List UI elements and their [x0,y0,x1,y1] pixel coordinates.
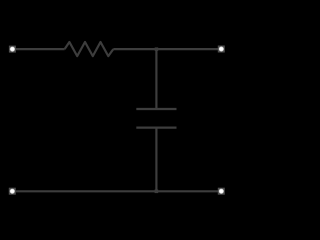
wire: input lead from left terminal to resistor [12,48,64,50]
terminal: bottom-left ground port [9,188,16,195]
terminal: bottom-right ground port [218,188,225,195]
wire: bottom ground rail [12,190,221,192]
terminal: top-right output port [218,46,225,53]
wire: output node to right terminal [156,48,221,50]
wire: resistor to output node [113,48,156,50]
wire: output node down to capacitor top plate [155,49,157,109]
node junction (bottom ground node) [155,190,159,194]
capacitor C1 bottom plate [136,126,176,128]
node junction (top, output node) [155,47,159,51]
capacitor C1 top plate [136,108,176,110]
terminal: top-left input port [9,46,16,53]
resistor R1 [65,42,114,56]
wire: capacitor bottom plate down to ground rail [155,128,157,192]
